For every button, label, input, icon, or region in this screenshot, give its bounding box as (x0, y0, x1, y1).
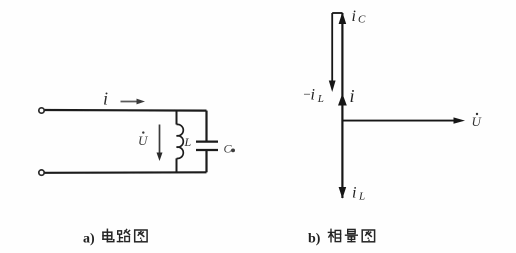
phasor top connector (332, 12, 342, 14)
caption character xiang (328, 229, 340, 242)
voltage arrow U (157, 125, 163, 162)
svg-text:b): b) (308, 232, 321, 247)
phasor iC arrowhead (339, 12, 347, 24)
label Cs (224, 142, 236, 156)
svg-text:a): a) (83, 232, 95, 247)
terminal bottom (39, 170, 44, 175)
phasor -iL vector (329, 13, 336, 92)
phasor iC label (352, 8, 367, 25)
svg-text:L: L (358, 190, 365, 202)
phasor -iL label (303, 87, 324, 105)
terminal top (39, 108, 44, 113)
inductor L (177, 110, 184, 172)
wire top (45, 109, 207, 112)
phasor i arrowhead (338, 94, 347, 106)
svg-text:C: C (358, 13, 366, 25)
svg-text:i: i (103, 89, 108, 109)
svg-text:U: U (472, 114, 483, 129)
svg-text:i: i (352, 185, 356, 202)
svg-text:L: L (184, 135, 192, 149)
caption character lu (117, 230, 129, 242)
caption character tu (135, 230, 147, 242)
svg-text:i: i (352, 8, 356, 25)
voltage label U (138, 131, 149, 148)
capacitor Cs (196, 111, 218, 173)
phasor U label (472, 113, 483, 129)
svg-text:L: L (317, 93, 324, 105)
svg-text:C: C (224, 142, 233, 156)
wire bottom (45, 171, 207, 174)
phasor U axis (343, 117, 465, 123)
current arrow (121, 99, 146, 105)
svg-text:i: i (350, 86, 355, 106)
caption character liang (346, 229, 358, 241)
phasor iL label (352, 185, 365, 203)
svg-text:i: i (311, 87, 315, 104)
caption character tu2 (362, 230, 374, 242)
phasor iL arrowhead (339, 187, 347, 199)
caption character dian (103, 229, 114, 241)
svg-text:U: U (138, 133, 149, 148)
phasor vertical line (341, 13, 343, 198)
